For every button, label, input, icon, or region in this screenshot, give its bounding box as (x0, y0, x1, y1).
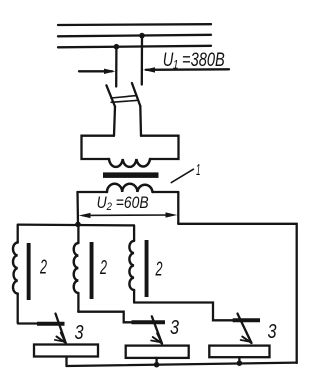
choke L1 coil (cell 1, 4 scallops on left edge) (13, 225, 18, 323)
choke core bar 3 (filled) (145, 240, 149, 297)
electrode 3 (diagonal with arrowhead) (238, 314, 252, 343)
transformer core bar (item 1, filled) (103, 172, 159, 178)
choke core bar 2 (filled) (90, 242, 94, 299)
ingot slab 2 (outlined rectangle) (126, 346, 189, 358)
wire (cell 3 bottom step) (134, 303, 234, 321)
bus line L2 (middle supply line) (58, 35, 211, 37)
node C (junction dot where U2 left lead meets bus) (75, 222, 81, 228)
wire (slab 1 drop to bottom bus) (65, 357, 67, 367)
wire (slab 3 drop) (238, 357, 240, 363)
wire (secondary top edge right) (153, 191, 179, 193)
bus line L3 (bottom supply line) (58, 46, 211, 48)
svg-text:3: 3 (170, 317, 179, 339)
svg-text:3: 3 (75, 322, 84, 344)
electrode 1 (diagonal with arrowhead) (55, 314, 66, 343)
node D (junction dot slab 2 on bottom bus) (154, 362, 160, 368)
dimension arrow right with leader (points left at right wire) (143, 67, 229, 72)
transformer secondary winding (3 scallops above U2 box) (107, 184, 153, 192)
switch linkage bar (two parallel tie lines) (111, 96, 137, 103)
switch blade left (knife switch pole 1) (106, 85, 115, 135)
wire (U2 right lead across to right bus) (178, 223, 296, 225)
choke L3 coil (cell 3, 4 scallops on left edge) (129, 225, 134, 302)
svg-text:3: 3 (268, 321, 277, 343)
transformer tank outline (plinth) (82, 136, 179, 159)
label 2 (cell 3) (155, 258, 163, 280)
label 3 (cell 3) (268, 321, 277, 343)
ingot slab 1 (outlined rectangle) (34, 345, 98, 357)
dimension arrow left (points right at left wire) (79, 69, 116, 74)
wire (secondary bus from cell1 to cell3 tap) (18, 223, 134, 226)
wire (slab 2 drop) (155, 358, 157, 365)
label U2 = 60 V (97, 193, 149, 212)
label 3 (cell 2) (170, 317, 179, 339)
svg-text:2: 2 (155, 258, 163, 280)
leader line to label 1 (171, 169, 193, 182)
label 1 (196, 162, 201, 179)
wire (bottom return bus) (67, 363, 297, 366)
svg-text:U₂ =60В: U₂ =60В (97, 193, 149, 212)
wire (right bus vertical) (296, 224, 298, 363)
electrode holder 3 (thick bar) (233, 318, 260, 322)
choke L2 coil (cell 2, 4 scallops on left edge) (74, 224, 79, 311)
wire (cell 1 bottom run) (18, 322, 38, 324)
choke core bar 1 (filled) (27, 243, 31, 300)
label U1 = 380 V (163, 50, 225, 71)
bus line L1 (top supply line) (58, 23, 211, 26)
svg-text:U₁ =380В: U₁ =380В (163, 50, 225, 71)
transformer primary winding (3 scallops below tank) (109, 159, 150, 167)
ingot slab 3 (outlined rectangle) (209, 346, 269, 358)
label 2 (cell 1) (39, 257, 47, 279)
wire (right tap from middle bus down to switch, crosses bottom bus) (141, 36, 143, 85)
svg-text:2: 2 (99, 257, 107, 279)
node E (junction dot slab 3 on bottom bus) (237, 360, 243, 366)
node A (junction dot, left tap on bottom bus) (114, 44, 120, 50)
wire (U2 right lead down) (177, 192, 179, 224)
wire (secondary top edge left) (78, 191, 108, 193)
electrode holder 1 (thick bar) (37, 322, 65, 326)
wire (cell 2 bottom step) (78, 312, 132, 323)
dimension arrow U2 (double headed) (79, 212, 178, 218)
label 3 (cell 1) (75, 322, 84, 344)
wire (left tap from bottom bus down to switch) (115, 47, 118, 87)
svg-text:2: 2 (39, 257, 47, 279)
switch blade right (knife switch pole 2) (132, 83, 141, 136)
svg-text:1: 1 (196, 162, 201, 179)
label 2 (cell 2) (99, 257, 107, 279)
electrode holder 2 (thick bar) (132, 320, 166, 324)
wire (U2 left lead down) (76, 192, 79, 225)
electrode 2 (diagonal with arrowhead) (151, 316, 162, 343)
node B (junction dot, right tap on middle bus) (139, 33, 145, 39)
